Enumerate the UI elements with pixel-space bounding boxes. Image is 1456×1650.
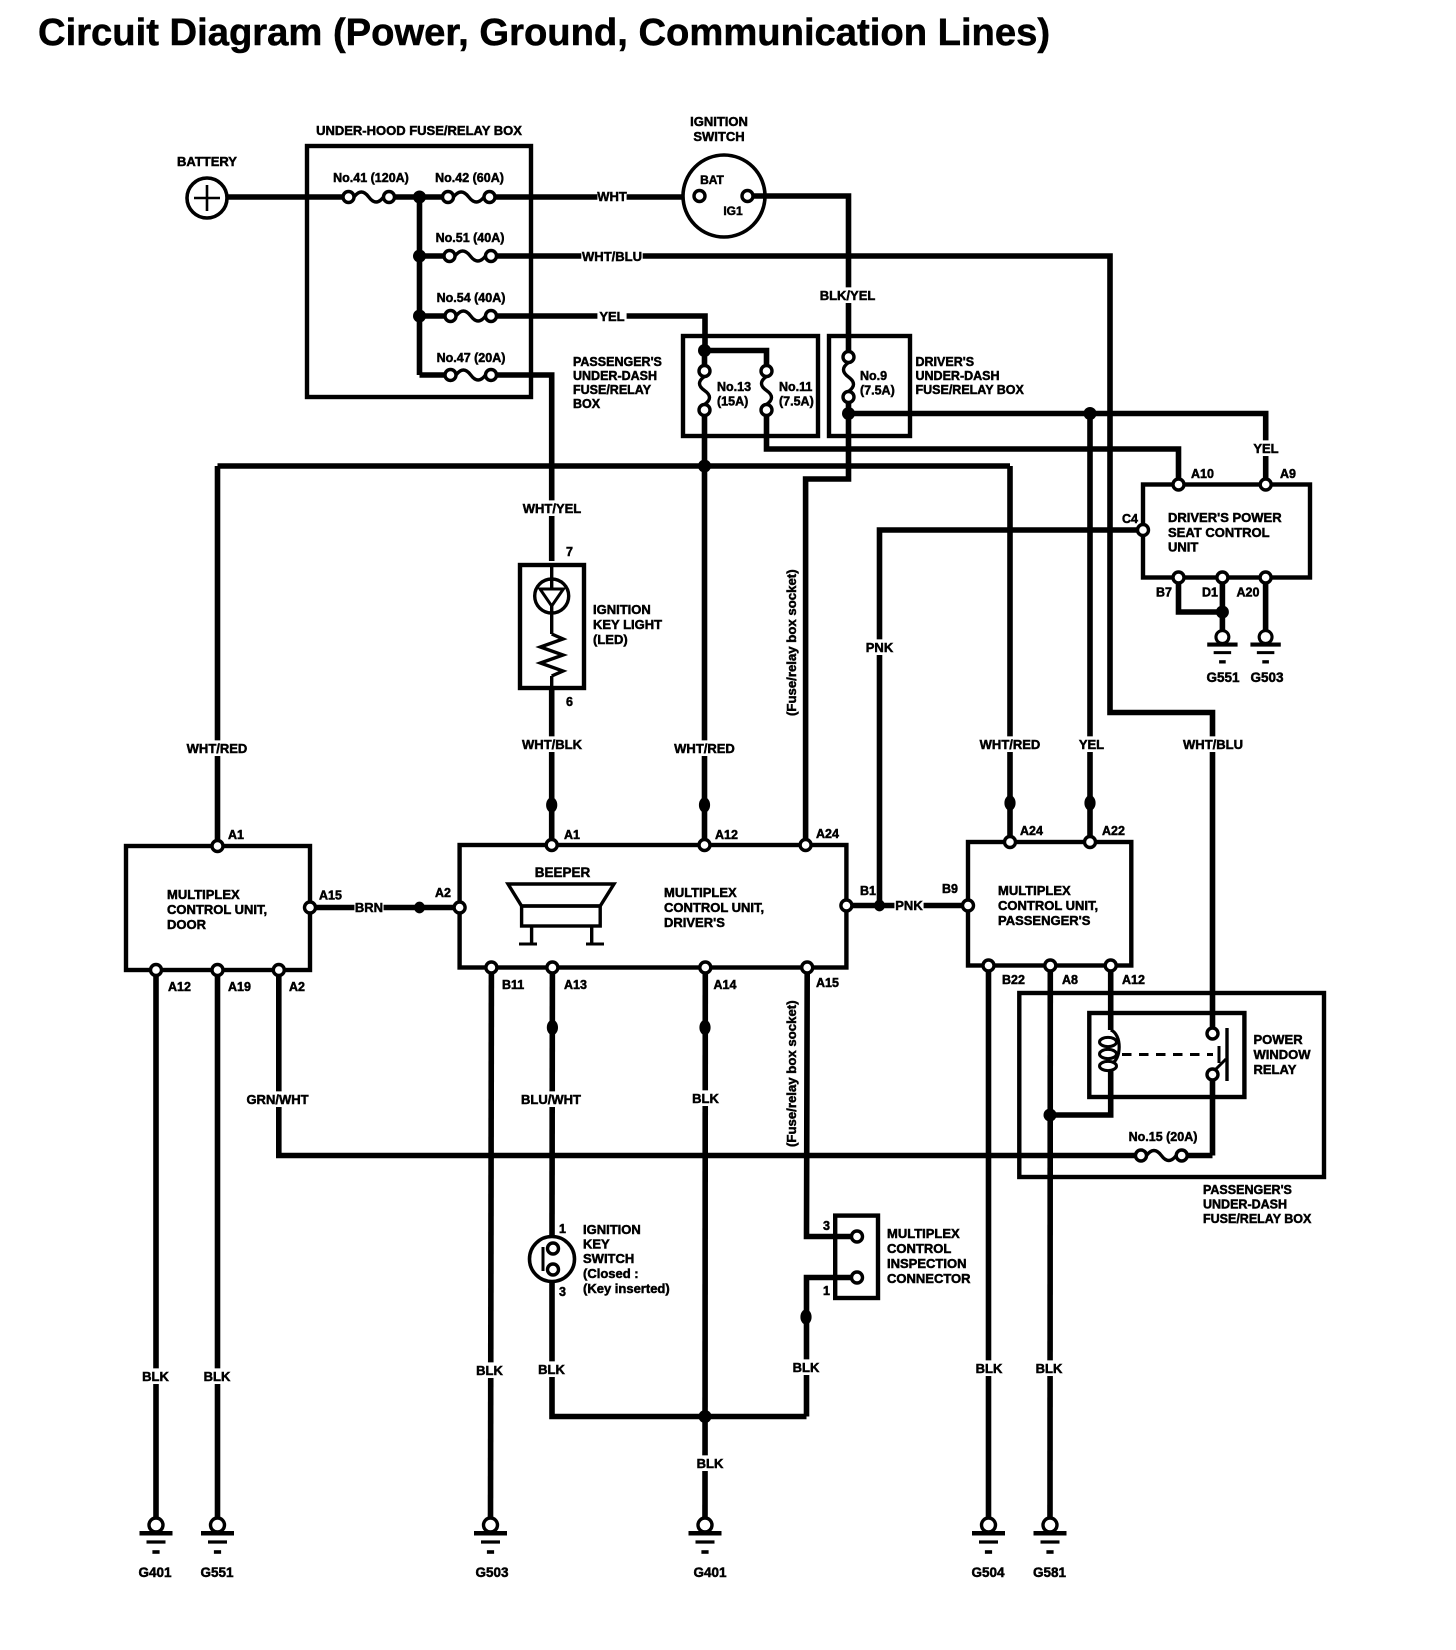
wire BLK: B11 driver's to ground G503	[475, 973, 504, 1518]
svg-text:INSPECTION: INSPECTION	[887, 1256, 966, 1271]
node junction B7/D1	[1216, 606, 1229, 619]
svg-text:PNK: PNK	[866, 640, 894, 655]
svg-text:DRIVER'S POWER: DRIVER'S POWER	[1168, 510, 1282, 525]
under-hood fuse/relay box	[307, 123, 531, 397]
pin D1	[1202, 572, 1228, 600]
svg-text:MULTIPLEX: MULTIPLEX	[998, 883, 1071, 898]
svg-text:No.13: No.13	[717, 380, 751, 394]
wire relay contact down to fuse No.15	[1210, 1080, 1216, 1156]
pin A24 passenger's	[1005, 824, 1043, 848]
svg-text:A8: A8	[1062, 973, 1078, 987]
ground G503 center	[474, 1518, 509, 1580]
svg-text:A14: A14	[714, 978, 737, 992]
fuse No.41 (120A)	[333, 171, 409, 203]
pin C4	[1122, 512, 1148, 536]
ignition key light (LED)	[520, 545, 662, 709]
label BLK at A8 ground wire	[1034, 1360, 1063, 1376]
node junction A8 branch	[1044, 1109, 1057, 1122]
svg-text:PASSENGER'S: PASSENGER'S	[998, 913, 1091, 928]
svg-text:SWITCH: SWITCH	[693, 129, 744, 144]
svg-text:A24: A24	[816, 827, 839, 841]
svg-text:YEL: YEL	[1079, 737, 1104, 752]
svg-text:KEY LIGHT: KEY LIGHT	[593, 617, 662, 632]
ground G581	[1033, 1518, 1067, 1580]
svg-text:FUSE/RELAY BOX: FUSE/RELAY BOX	[916, 383, 1025, 397]
svg-text:KEY: KEY	[583, 1237, 610, 1252]
ground G551 left	[200, 1518, 234, 1580]
fuse No.15 (20A)	[1129, 1130, 1198, 1161]
svg-text:MULTIPLEX: MULTIPLEX	[167, 887, 240, 902]
pin A9	[1260, 467, 1296, 490]
passenger's under-dash fuse/relay box lower	[1019, 993, 1324, 1226]
svg-text:A10: A10	[1191, 467, 1214, 481]
wire BLU/WHT: A13 driver's to ignition key switch	[520, 973, 581, 1236]
wire A8 branch to relay coil bottom	[1050, 1064, 1111, 1115]
svg-text:No.42 (60A): No.42 (60A)	[435, 171, 504, 185]
pin B1 driver's	[841, 884, 876, 911]
svg-text:WHT/RED: WHT/RED	[980, 737, 1041, 752]
node bus junction top	[413, 191, 426, 204]
svg-text:IGNITION: IGNITION	[593, 602, 651, 617]
svg-text:No.41 (120A): No.41 (120A)	[333, 171, 409, 185]
pin A13 driver's	[547, 962, 587, 992]
svg-text:A2: A2	[435, 886, 451, 900]
label WHT/RED center	[674, 740, 735, 812]
relay contact	[1122, 1028, 1227, 1081]
wire GRN/WHT: A2 door to fuse No.15	[246, 976, 1135, 1156]
svg-text:BLK/YEL: BLK/YEL	[820, 288, 876, 303]
svg-text:GRN/WHT: GRN/WHT	[246, 1092, 308, 1107]
driver's power seat control unit	[1143, 485, 1310, 578]
svg-text:BLK: BLK	[142, 1369, 169, 1384]
svg-text:BLK: BLK	[793, 1360, 820, 1375]
svg-text:PASSENGER'S: PASSENGER'S	[1203, 1183, 1292, 1197]
svg-text:A2: A2	[289, 980, 305, 994]
ignition switch	[683, 114, 765, 237]
wire bus vertical	[417, 197, 423, 375]
wire YEL: junction down to A22	[1077, 414, 1106, 837]
svg-text:WHT/RED: WHT/RED	[187, 741, 248, 756]
wire to fuse No.13	[702, 351, 708, 367]
wire BLK: A12 door to ground G401	[141, 976, 170, 1519]
svg-text:BLK: BLK	[476, 1363, 503, 1378]
pin A19 door	[212, 965, 251, 995]
wire WHT/RED trunk: No.13 down with branches	[218, 416, 1011, 842]
wire fuse/relay box socket: A15 driver's to inspection pin 3	[807, 973, 852, 1237]
wire WHT/BLK: LED to A1 driver's	[521, 688, 582, 840]
svg-text:SEAT CONTROL: SEAT CONTROL	[1168, 525, 1270, 540]
svg-text:G551: G551	[200, 1565, 234, 1580]
ground G401 right	[689, 1518, 728, 1580]
pin A15 driver's	[802, 962, 839, 990]
svg-text:G401: G401	[138, 1565, 172, 1580]
node junction at No.9 output	[842, 407, 855, 420]
svg-text:B1: B1	[860, 884, 876, 898]
svg-text:MULTIPLEX: MULTIPLEX	[664, 885, 737, 900]
svg-text:PNK: PNK	[895, 898, 923, 913]
pin A15 door	[305, 889, 342, 914]
svg-text:A20: A20	[1237, 586, 1260, 600]
pin A10	[1173, 467, 1214, 490]
svg-text:IGNITION: IGNITION	[690, 114, 748, 129]
svg-text:BLK: BLK	[697, 1456, 724, 1471]
relay coil	[1100, 1030, 1120, 1071]
svg-text:B11: B11	[502, 978, 524, 992]
multiplex control unit door	[126, 846, 310, 970]
wire fuse box socket jog down to A24 driver's	[806, 414, 849, 840]
wire BLK: inspection pin 1 to ground bus	[791, 1278, 851, 1417]
fuse No.54 (40A)	[420, 291, 506, 322]
svg-text:CONTROL UNIT,: CONTROL UNIT,	[664, 900, 764, 915]
svg-text:A13: A13	[564, 978, 587, 992]
svg-text:(7.5A): (7.5A)	[860, 384, 895, 398]
svg-text:A1: A1	[228, 828, 244, 842]
svg-text:DRIVER'S: DRIVER'S	[664, 915, 725, 930]
fuse No.9 (7.5A)	[843, 352, 895, 403]
svg-text:A15: A15	[816, 976, 839, 990]
svg-text:CONNECTOR: CONNECTOR	[887, 1271, 971, 1286]
wire WHT: No.42 to ignition switch BAT	[495, 188, 693, 204]
fuse No.47 (20A)	[420, 351, 506, 381]
wire WHT/BLU: No.51 right then down to relay	[497, 248, 1244, 1023]
svg-text:G504: G504	[971, 1565, 1005, 1580]
wire No.41 to bus	[395, 194, 420, 200]
svg-text:PASSENGER'S: PASSENGER'S	[573, 355, 662, 369]
svg-text:No.11: No.11	[779, 380, 812, 394]
svg-text:DOOR: DOOR	[167, 917, 207, 932]
svg-text:CONTROL UNIT,: CONTROL UNIT,	[998, 898, 1098, 913]
svg-text:WHT/RED: WHT/RED	[674, 741, 735, 756]
svg-text:(Fuse/relay box socket): (Fuse/relay box socket)	[784, 569, 799, 716]
svg-text:A9: A9	[1280, 467, 1296, 481]
svg-text:UNDER-DASH: UNDER-DASH	[1203, 1198, 1287, 1212]
svg-text:UNDER-DASH: UNDER-DASH	[573, 369, 657, 383]
svg-text:G503: G503	[475, 1565, 509, 1580]
pin A20	[1237, 572, 1272, 600]
pin A1 driver's	[546, 828, 580, 851]
pin A22 passenger's	[1085, 824, 1125, 848]
wire YEL: No.54 to passenger's fuse box	[497, 308, 706, 346]
svg-text:3: 3	[823, 1219, 830, 1233]
fuse No.42 (60A)	[420, 171, 504, 203]
svg-text:WHT/BLK: WHT/BLK	[522, 737, 583, 752]
node junction WHT/RED 4-way	[698, 460, 711, 473]
pin A24 driver's	[800, 827, 839, 851]
svg-text:UNIT: UNIT	[1168, 540, 1198, 555]
wire A20 to ground G503	[1263, 583, 1269, 630]
pin B11 driver's	[486, 962, 524, 992]
svg-text:BLU/WHT: BLU/WHT	[521, 1092, 581, 1107]
svg-text:(Fuse/relay box socket): (Fuse/relay box socket)	[784, 1000, 799, 1147]
svg-text:A15: A15	[319, 889, 342, 903]
fuse No.11 (7.5A)	[761, 366, 814, 416]
wire BRN: A15 door to A2 driver's	[316, 899, 455, 915]
svg-text:G401: G401	[693, 1565, 727, 1580]
svg-text:BATTERY: BATTERY	[177, 154, 237, 169]
pin A2 driver's	[435, 886, 465, 913]
pin A12 door	[151, 965, 191, 995]
svg-text:A12: A12	[1122, 973, 1145, 987]
beeper	[508, 865, 614, 944]
svg-text:WINDOW: WINDOW	[1254, 1047, 1312, 1062]
wire BLK: B22 passenger's to ground G504	[974, 971, 1003, 1518]
svg-text:BLK: BLK	[204, 1369, 231, 1384]
svg-text:FUSE/RELAY BOX: FUSE/RELAY BOX	[1203, 1212, 1312, 1226]
svg-text:WHT/YEL: WHT/YEL	[523, 501, 582, 516]
ground G503 (seat unit)	[1250, 631, 1284, 685]
passenger's under-dash fuse/relay box	[573, 336, 818, 436]
svg-text:No.47 (20A): No.47 (20A)	[437, 351, 506, 365]
ignition key switch	[530, 1222, 670, 1299]
pin 3 inspection	[823, 1219, 862, 1242]
battery	[177, 154, 237, 218]
svg-text:UNDER-HOOD FUSE/RELAY BOX: UNDER-HOOD FUSE/RELAY BOX	[316, 123, 522, 138]
multiplex control unit passenger's	[968, 842, 1131, 966]
node junction YEL branch to A22	[1084, 407, 1097, 420]
label WHT/RED right	[979, 736, 1040, 810]
svg-text:(15A): (15A)	[717, 395, 748, 409]
svg-text:(LED): (LED)	[593, 632, 628, 647]
ground G401 left	[138, 1518, 172, 1580]
svg-text:B9: B9	[942, 882, 958, 896]
pin A12 driver's	[699, 828, 738, 851]
wire A12 passenger's to relay coil	[1108, 971, 1114, 1030]
wire WHT/YEL: No.47 down to ignition key light	[497, 375, 583, 561]
svg-text:G581: G581	[1033, 1565, 1067, 1580]
svg-text:BLK: BLK	[1036, 1361, 1063, 1376]
ground G504	[971, 1518, 1005, 1580]
svg-text:A1: A1	[564, 828, 580, 842]
svg-text:BLK: BLK	[976, 1361, 1003, 1376]
multiplex control inspection connector	[835, 1216, 971, 1298]
svg-text:A22: A22	[1102, 824, 1125, 838]
pin 1 inspection	[823, 1272, 862, 1298]
node bus junction No.51	[413, 250, 426, 263]
multiplex control unit driver's	[460, 845, 847, 968]
svg-text:A12: A12	[715, 828, 738, 842]
svg-text:CONTROL: CONTROL	[887, 1241, 951, 1256]
svg-text:RELAY: RELAY	[1254, 1062, 1297, 1077]
svg-text:3: 3	[559, 1285, 566, 1299]
node junction YEL into fuses	[698, 344, 711, 357]
pin A14 driver's	[700, 962, 737, 992]
driver's under-dash fuse/relay box	[829, 336, 1025, 436]
svg-text:BEEPER: BEEPER	[535, 865, 591, 880]
svg-text:YEL: YEL	[599, 309, 624, 324]
wire BLK/YEL branch right to A9	[849, 414, 1281, 480]
svg-text:No.54 (40A): No.54 (40A)	[437, 291, 506, 305]
svg-text:No.15 (20A): No.15 (20A)	[1129, 1130, 1198, 1144]
svg-text:D1: D1	[1202, 586, 1218, 600]
wire branch to fuse No.11	[705, 351, 767, 367]
pin A12 passenger's	[1105, 960, 1145, 987]
svg-text:(Closed :: (Closed :	[583, 1266, 639, 1281]
svg-text:MULTIPLEX: MULTIPLEX	[887, 1226, 960, 1241]
svg-text:WHT/BLU: WHT/BLU	[1183, 737, 1243, 752]
svg-text:SWITCH: SWITCH	[583, 1251, 634, 1266]
wire fuse No.15 to relay	[1187, 1153, 1212, 1159]
svg-text:POWER: POWER	[1254, 1032, 1304, 1047]
svg-text:C4: C4	[1122, 512, 1138, 526]
svg-text:WHT: WHT	[597, 189, 627, 204]
wire BLK: key switch to ground bus	[537, 1282, 807, 1417]
svg-text:No.9: No.9	[860, 369, 887, 383]
ground G551 (seat unit)	[1206, 631, 1240, 685]
fuse No.13 (15A)	[699, 366, 751, 416]
svg-text:B7: B7	[1156, 586, 1172, 600]
pin B7	[1156, 572, 1184, 600]
wire PNK: B1 to B9 and up to C4	[852, 530, 1138, 913]
pin A1 door	[212, 828, 244, 852]
svg-text:(Key inserted): (Key inserted)	[583, 1281, 670, 1296]
svg-text:DRIVER'S: DRIVER'S	[916, 355, 975, 369]
wire B7 and D1 to ground G551	[1179, 583, 1223, 630]
wire battery to fuse box	[227, 194, 346, 200]
svg-text:A19: A19	[228, 980, 251, 994]
svg-text:1: 1	[559, 1222, 566, 1236]
svg-text:BAT: BAT	[700, 173, 724, 187]
svg-text:A12: A12	[168, 980, 191, 994]
wire BLK/YEL: ignition switch IG1 down to fuse No.9	[753, 196, 878, 352]
wire No.9 output junction	[846, 403, 852, 414]
pin B9 passenger's	[942, 882, 973, 911]
node bus junction No.54	[413, 310, 426, 323]
svg-text:Circuit Diagram (Power, Ground: Circuit Diagram (Power, Ground, Communic…	[38, 11, 1050, 54]
svg-text:FUSE/RELAY: FUSE/RELAY	[573, 383, 652, 397]
power window relay	[1089, 1013, 1311, 1097]
wire BLK: A14 driver's down to ground G401	[691, 973, 725, 1518]
svg-text:BLK: BLK	[538, 1362, 565, 1377]
svg-text:UNDER-DASH: UNDER-DASH	[916, 369, 1000, 383]
pin B22 passenger's	[983, 960, 1025, 987]
svg-text:IGNITION: IGNITION	[583, 1222, 641, 1237]
svg-text:YEL: YEL	[1253, 441, 1278, 456]
svg-text:CONTROL UNIT,: CONTROL UNIT,	[167, 902, 267, 917]
svg-text:No.51 (40A): No.51 (40A)	[436, 231, 505, 245]
label WHT/RED left	[186, 740, 247, 756]
svg-text:(7.5A): (7.5A)	[779, 395, 814, 409]
svg-text:BRN: BRN	[355, 900, 383, 915]
wire No.11 to A10	[767, 416, 1179, 480]
fuse No.51 (40A)	[420, 231, 505, 262]
svg-text:IG1: IG1	[723, 204, 743, 218]
svg-text:BOX: BOX	[573, 397, 601, 411]
svg-text:6: 6	[566, 695, 573, 709]
svg-text:1: 1	[823, 1284, 830, 1298]
svg-text:BLK: BLK	[692, 1091, 719, 1106]
node junction ground bus	[699, 1410, 712, 1423]
svg-text:7: 7	[566, 545, 573, 559]
pin A2 door	[273, 965, 305, 995]
wire A8 passenger's down to ground G581	[1047, 971, 1053, 1518]
svg-text:WHT/BLU: WHT/BLU	[582, 249, 642, 264]
wire relay contact to WHT/BLU	[1210, 1023, 1216, 1028]
pin A8 passenger's	[1045, 960, 1078, 987]
svg-text:G551: G551	[1206, 670, 1240, 685]
svg-text:A24: A24	[1020, 824, 1043, 838]
wire BLK: A19 door to ground G551	[202, 976, 231, 1519]
svg-text:B22: B22	[1002, 973, 1025, 987]
svg-text:G503: G503	[1250, 670, 1284, 685]
